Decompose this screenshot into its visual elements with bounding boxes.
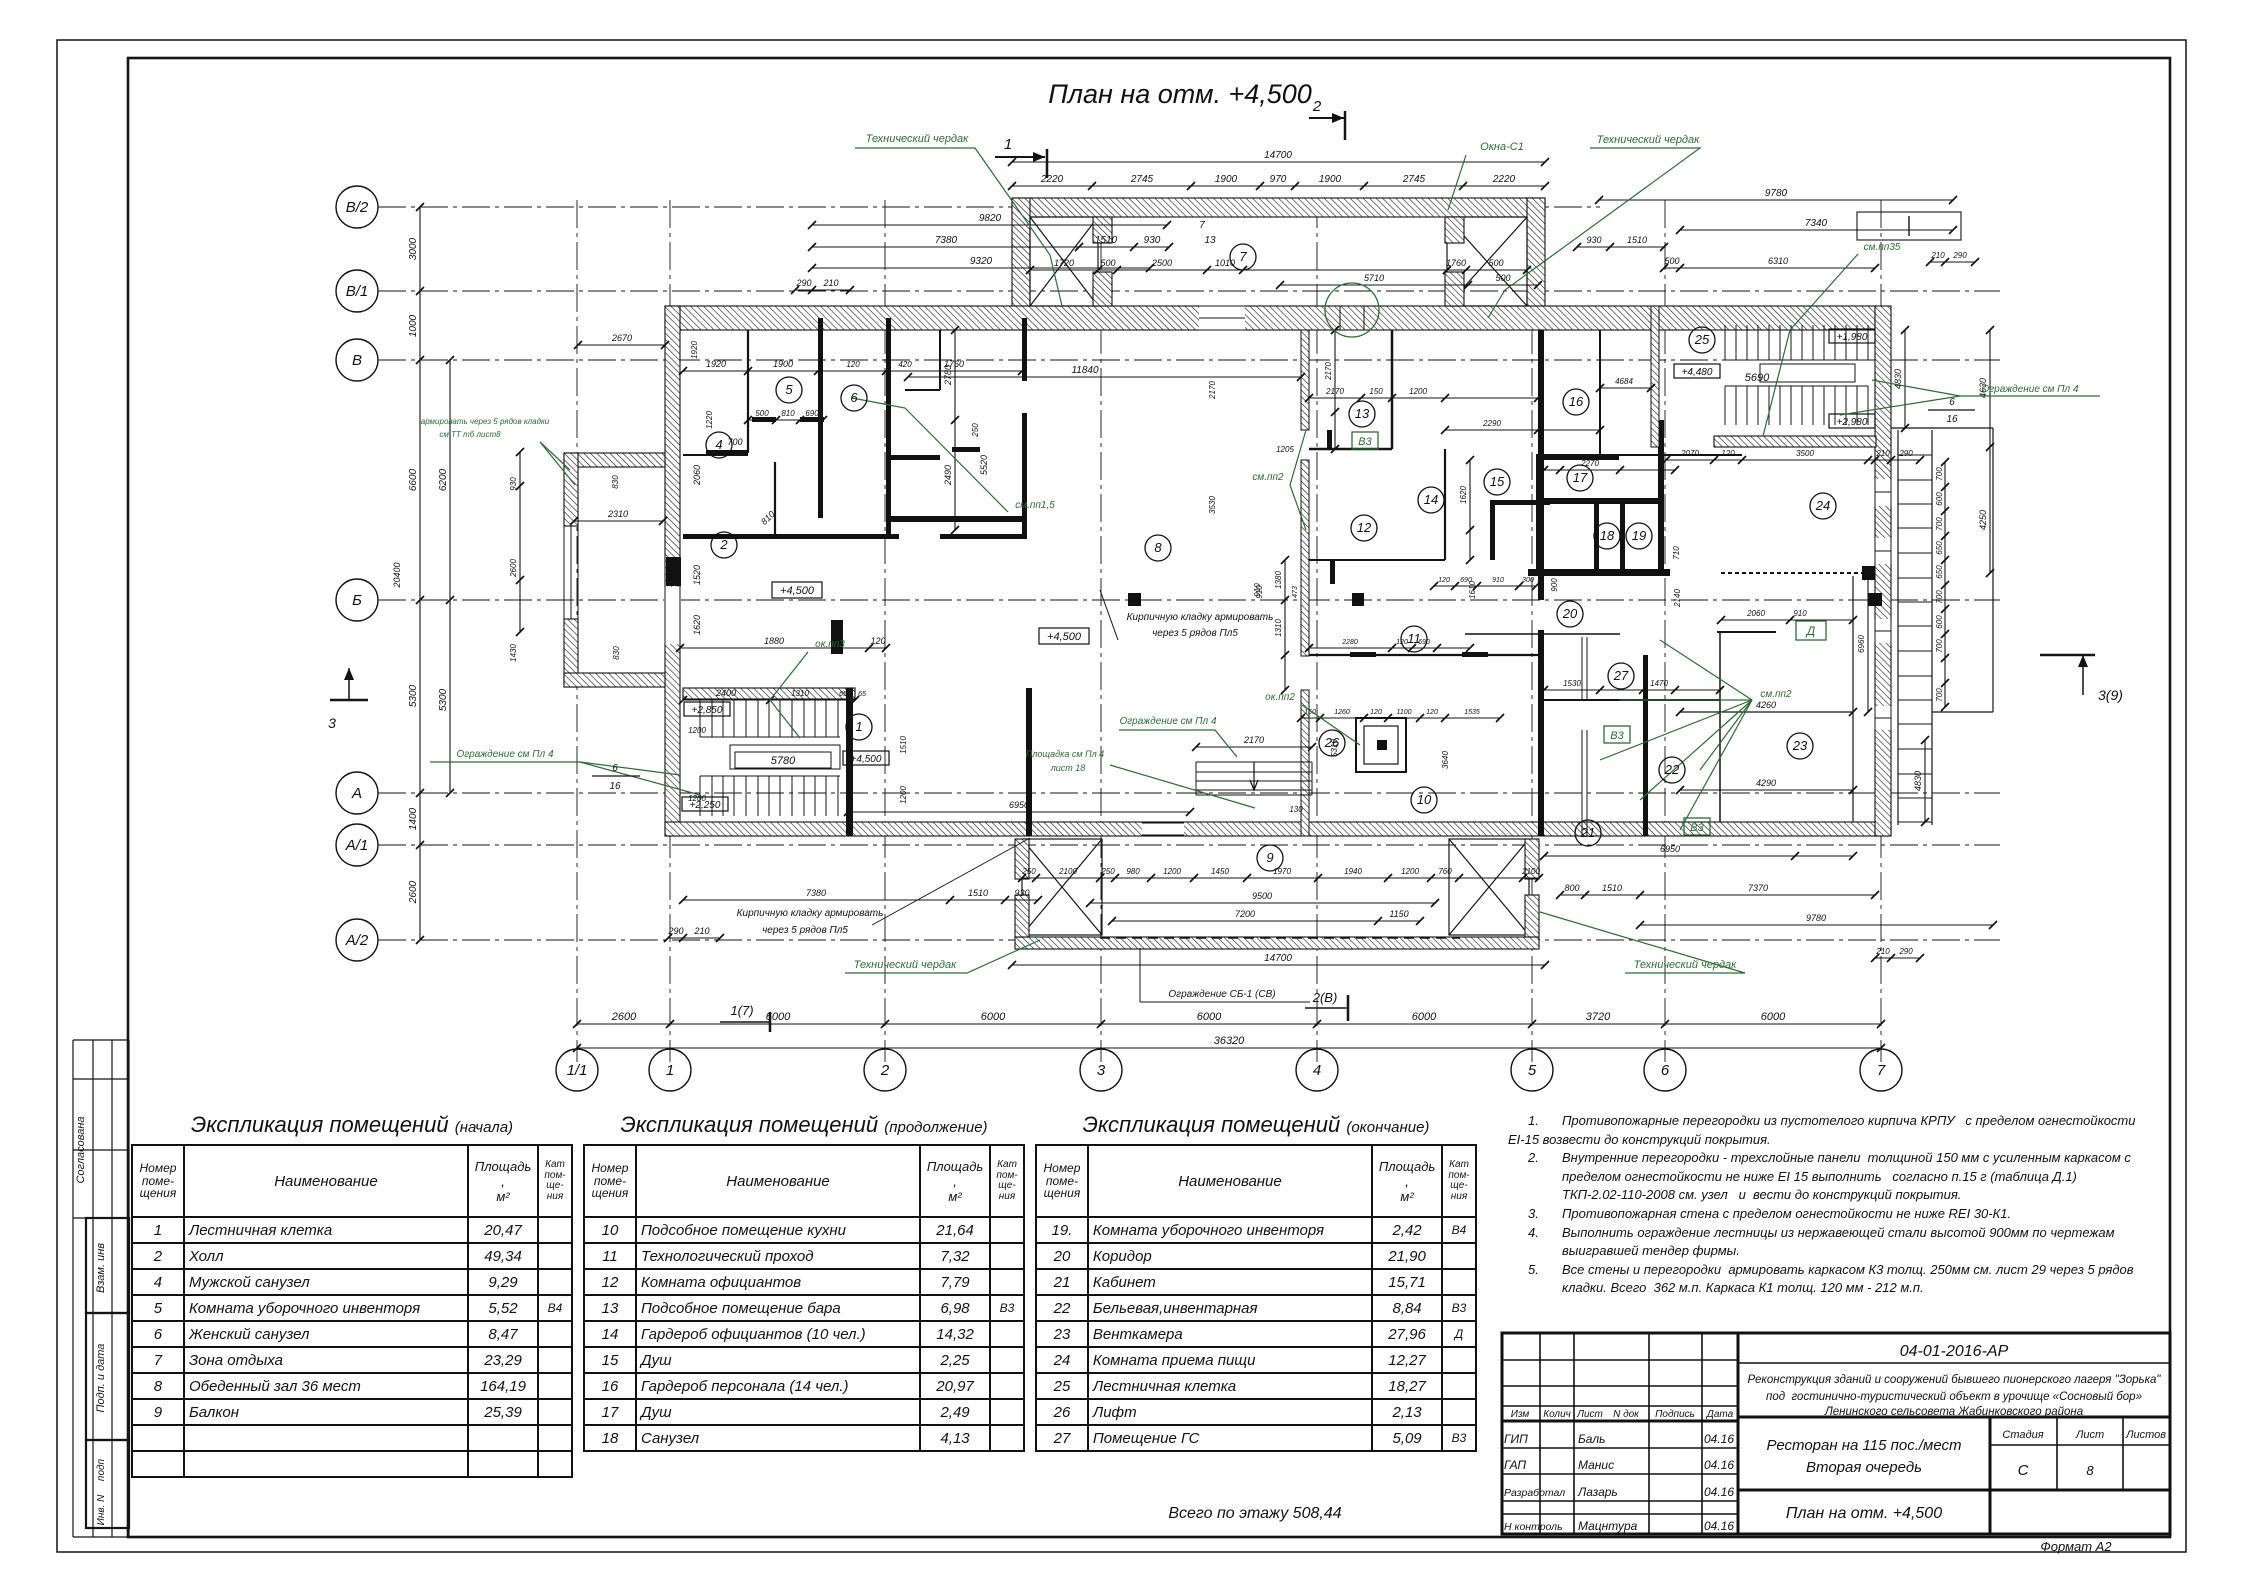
room circle 11 xyxy=(1401,626,1427,652)
left vertical dim outer xyxy=(449,360,451,793)
svg-text:под гостинично-туристический: под гостинично-туристический объект в ур… xyxy=(1766,1391,2142,1403)
dim 14700 bottom xyxy=(1012,964,1545,966)
right outer wall xyxy=(1875,306,1891,836)
level box +2,980 xyxy=(1829,414,1875,428)
dim 9320 xyxy=(812,267,1150,269)
dim 290 210 small xyxy=(795,289,850,291)
dims near room6 right xyxy=(954,330,956,530)
axis circles bottom xyxy=(556,1049,598,1091)
left outer wall xyxy=(665,306,680,836)
dim 6950 dining bottom xyxy=(848,811,1190,813)
balcony dims 9500 7200 1150 xyxy=(1090,902,1435,904)
vertical dims right cluster xyxy=(1334,330,1336,449)
svg-text:Подпись: Подпись xyxy=(1655,1409,1695,1420)
door stubs right cluster xyxy=(1350,652,1376,657)
door gap bottom wall xyxy=(1142,823,1184,835)
section mark 2 top xyxy=(1309,117,1344,119)
small door stubs room5 xyxy=(752,417,776,422)
dim 9820 xyxy=(812,224,1167,226)
stub room6 upper xyxy=(890,455,940,460)
column mark axis4 pier xyxy=(1352,593,1364,606)
svg-text:04.16: 04.16 xyxy=(1704,1432,1734,1446)
dim 2070 3500 210 290 xyxy=(1666,459,1920,461)
top wall window opening below room 7 xyxy=(1199,305,1245,331)
room circle 9 xyxy=(1257,845,1283,871)
left wall door gap xyxy=(664,587,681,644)
svg-text:Разработал: Разработал xyxy=(1504,1487,1565,1499)
svg-text:Формат А2: Формат А2 xyxy=(2040,1539,2112,1554)
dims right cluster row y470 xyxy=(1544,469,1675,471)
vertical wall x1720 xyxy=(1719,632,1721,822)
room circle 13 xyxy=(1349,401,1375,427)
svg-text:Баль: Баль xyxy=(1578,1432,1605,1446)
level box +1,980 xyxy=(1829,329,1875,343)
bottom outer wall xyxy=(665,822,1891,836)
room circle 14 xyxy=(1418,487,1444,513)
room circle 17 xyxy=(1567,465,1593,491)
stair right wall xyxy=(846,688,853,836)
stairwell 25 bottom wall xyxy=(1714,436,1876,447)
dim row above top wall left xyxy=(812,246,1169,248)
explication table 2 (prodolzhenie) xyxy=(583,1112,1025,1452)
explication table 1 (nachala) xyxy=(131,1112,573,1478)
room circle 12 xyxy=(1351,515,1377,541)
room circle 21 xyxy=(1575,820,1601,846)
green circled wall detail xyxy=(1325,283,1379,337)
wall y455 horizontal xyxy=(1538,454,1742,456)
svg-text:Реконструкция зданий и сооруже: Реконструкция зданий и сооружений бывшег… xyxy=(1748,1374,2162,1386)
section mark 3(9) right xyxy=(2040,654,2095,657)
right cluster dim rows xyxy=(1309,397,1538,399)
svg-text:Ресторан на 115 пос./мест: Ресторан на 115 пос./мест xyxy=(1766,1437,1961,1454)
dining bottom wall pier xyxy=(1026,688,1032,836)
room circle 27 xyxy=(1608,663,1634,689)
dim 4684 room16 xyxy=(1600,387,1651,389)
wall under room24 dotted xyxy=(1721,572,1868,574)
vertical dims between rooms xyxy=(1284,560,1286,690)
stairwell 25 treads xyxy=(1724,325,1726,360)
extra dims room 10/11 xyxy=(1301,717,1500,719)
room circle 16 xyxy=(1563,389,1589,415)
left protrusion top wall xyxy=(564,453,665,467)
axis dim chain bottom xyxy=(577,1023,1881,1025)
room13 walls xyxy=(1309,448,1392,451)
room15/17 thick walls xyxy=(1490,500,1550,505)
door lintel room4 xyxy=(706,450,748,455)
axis total dim 36320 xyxy=(577,1047,1881,1049)
partition room 27 vertical xyxy=(1581,637,1583,700)
left attribute strip xyxy=(0,0,200,1588)
ladder rung dims 700 xyxy=(1944,462,1946,707)
dims central 2400 xyxy=(683,699,855,701)
dims row 20 xyxy=(1544,689,1720,691)
partition dining/right cluster vertical xyxy=(1301,330,1309,430)
room circle 23 xyxy=(1787,733,1813,759)
svg-text:Ленинского сельсовета Жабинков: Ленинского сельсовета Жабинковского райо… xyxy=(1824,1406,2083,1418)
svg-text:Колич: Колич xyxy=(1543,1409,1571,1420)
section mark 1 top xyxy=(995,156,1045,158)
level box +2,850 xyxy=(684,702,730,716)
top outer wall right part xyxy=(1875,305,1891,307)
inside protrusion dims xyxy=(1030,269,1447,271)
room 12/14 partition horizontal xyxy=(1309,559,1445,561)
svg-text:Мацнтура: Мацнтура xyxy=(1578,1519,1638,1533)
room 14 right wall xyxy=(1444,449,1446,560)
svg-text:Лист: Лист xyxy=(1576,1409,1603,1420)
room circle 24 xyxy=(1810,493,1836,519)
level box +2,250 xyxy=(682,797,728,811)
axis circles left xyxy=(336,186,378,228)
top right dim 9780 xyxy=(1599,199,1953,201)
partition room4 vertical xyxy=(747,330,749,453)
top protrusion left window x-box xyxy=(1030,217,1098,306)
dim 210 290 top right corner xyxy=(1930,261,1975,263)
fraction 6/16 right xyxy=(1928,409,1975,411)
small partition room6 xyxy=(939,330,941,390)
window symbol I top right xyxy=(1857,212,1961,240)
column mark axis3 xyxy=(1128,593,1141,606)
level box +4,480 xyxy=(1674,364,1720,378)
partition room6 right thick vertical xyxy=(1022,318,1027,381)
left protrusion dims xyxy=(574,520,663,522)
dim 1880 120 xyxy=(680,647,886,649)
room6 bottom thick wall xyxy=(888,516,1025,522)
elevator 26 shaft xyxy=(1356,718,1406,772)
column mark axis7 xyxy=(1868,593,1882,606)
top outer wall xyxy=(665,306,1875,330)
dims row under block xyxy=(1434,585,1536,587)
svg-text:Манис: Манис xyxy=(1578,1458,1614,1472)
dim 2170 mid stair xyxy=(1196,746,1312,748)
green box V3 room22 xyxy=(1684,818,1710,835)
fraction 6/16 left xyxy=(592,775,640,777)
svg-text:Стадия: Стадия xyxy=(2002,1429,2043,1441)
room circle 5 xyxy=(776,377,802,403)
balcony dim chain xyxy=(1022,877,1539,879)
room circle 2 xyxy=(711,532,737,558)
green box V3 room27 xyxy=(1604,726,1630,743)
svg-text:ГАП: ГАП xyxy=(1504,1458,1526,1472)
top protrusion right window x-box xyxy=(1447,217,1527,306)
room20 bottom wall xyxy=(1544,699,1720,701)
room circle 1 xyxy=(846,714,872,740)
notes list xyxy=(1500,1112,2220,1298)
room23 inner lines xyxy=(1680,711,1853,713)
room circle 18 xyxy=(1594,523,1620,549)
room circle 8 xyxy=(1145,535,1171,561)
room circle 19 xyxy=(1626,523,1652,549)
stair top wall xyxy=(683,688,855,699)
left protrusion bottom wall xyxy=(564,673,665,687)
dim 4260 4290 room23 xyxy=(1680,711,1853,713)
svg-text:С: С xyxy=(2018,1462,2029,1479)
room circle 6 xyxy=(841,385,867,411)
left protrusion window xyxy=(563,526,565,619)
explication table 3 (okonchanie) xyxy=(1035,1112,1477,1452)
balcony right x-box xyxy=(1449,839,1529,935)
svg-text:ГИП: ГИП xyxy=(1504,1432,1528,1446)
room circle 15 xyxy=(1484,469,1510,495)
left protrusion left wall xyxy=(564,453,578,526)
balcony dashed rail line xyxy=(1100,937,1460,939)
exterior ladder right side xyxy=(1897,430,1899,825)
svg-text:Лазарь: Лазарь xyxy=(1577,1485,1618,1499)
interior dim rows upper left cluster xyxy=(683,370,1022,372)
bottom balcony room 9 bottom wall xyxy=(1015,937,1539,949)
svg-text:Лист: Лист xyxy=(2075,1429,2104,1441)
stair label 5780 xyxy=(735,752,831,768)
svg-text:04-01-2016-АР: 04-01-2016-АР xyxy=(1900,1343,2009,1360)
room22 top wall xyxy=(1717,631,1776,633)
svg-text:04.16: 04.16 xyxy=(1704,1485,1734,1499)
stair treads lower flight xyxy=(699,776,701,816)
svg-text:Н контроль: Н контроль xyxy=(1504,1521,1563,1533)
total by floor xyxy=(1040,1505,1470,1523)
room23/24 divider vertical xyxy=(1852,576,1854,822)
vertical wall x1645 xyxy=(1643,655,1648,836)
room circle 26 xyxy=(1319,730,1345,756)
interior dims 11840 xyxy=(908,376,1301,378)
svg-text:04.16: 04.16 xyxy=(1704,1458,1734,1472)
svg-text:N док: N док xyxy=(1613,1409,1640,1420)
cluster inner partition horizontal xyxy=(683,454,748,456)
mid balcony stair treads xyxy=(1195,762,1197,795)
room 16/25 wall xyxy=(1651,306,1659,447)
section mark 3 left xyxy=(330,699,368,702)
left vertical dim chain xyxy=(419,207,421,940)
top right small dims xyxy=(1577,246,1664,248)
top dim chain segments xyxy=(1012,185,1545,187)
terrace outline right xyxy=(1992,428,1994,712)
door stub room6 xyxy=(952,447,980,452)
room circle 10 xyxy=(1411,787,1437,813)
room circle 4 xyxy=(706,432,732,458)
stair treads upper flight xyxy=(699,699,701,737)
room circle 22 xyxy=(1659,757,1685,783)
room13 window stub xyxy=(1327,430,1332,450)
room circle 25 xyxy=(1689,327,1715,353)
top dim total 14700 xyxy=(1012,161,1545,163)
room circle 7 xyxy=(1230,244,1256,270)
dim 6950 bottom right xyxy=(1544,855,1853,857)
svg-text:Листов: Листов xyxy=(2125,1429,2166,1441)
top protrusion outline room 7 xyxy=(1012,198,1545,217)
svg-text:04.16: 04.16 xyxy=(1704,1519,1734,1533)
partition rooms 5/6 thick vertical xyxy=(886,318,891,538)
green box V3 room13 xyxy=(1352,432,1378,449)
pier near room2 bottom xyxy=(831,620,843,654)
main vertical partition x1538 xyxy=(1538,330,1544,600)
stair landing lines xyxy=(700,736,840,738)
horizontal axis lines xyxy=(378,206,1600,208)
partition rooms 4/5 thick vertical xyxy=(818,318,823,518)
svg-text:Дата: Дата xyxy=(1706,1409,1734,1420)
bottom inner dims left xyxy=(683,899,1038,901)
dim rows room24 xyxy=(1721,619,1853,621)
level box +4,500 near stair xyxy=(843,751,889,765)
room 16 left wall xyxy=(1599,330,1601,455)
room circle 20 xyxy=(1557,601,1583,627)
svg-text:Изм: Изм xyxy=(1511,1409,1530,1420)
green box D room24 xyxy=(1796,621,1826,640)
svg-text:Вторая очередь: Вторая очередь xyxy=(1806,1459,1922,1476)
svg-text:8: 8 xyxy=(2086,1463,2094,1478)
partition room4/2 vertical xyxy=(774,462,776,534)
wall right of room2 with pier xyxy=(666,557,681,586)
balcony left x-box xyxy=(1022,839,1102,935)
right vertical dims xyxy=(1989,330,1991,573)
level box +4,500 room2 xyxy=(772,582,822,598)
rooms 11/12 partition xyxy=(1309,654,1538,656)
corridor 20 top wall xyxy=(1465,633,1620,635)
svg-text:План на отм. +4,500: План на отм. +4,500 xyxy=(1786,1505,1942,1522)
level box +4,500 dining xyxy=(1039,628,1089,644)
rooms 17/18/19 thick block xyxy=(1536,454,1541,570)
vertical axis lines xyxy=(576,200,578,1062)
bottom right dims xyxy=(1560,894,1875,896)
cluster bottom wall xyxy=(683,534,899,539)
